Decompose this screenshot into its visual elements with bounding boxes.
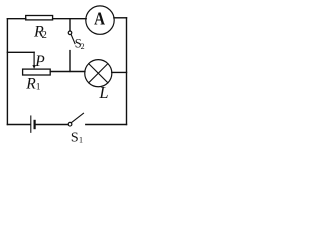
rheostat R1 box <box>23 69 51 75</box>
switch S2 lower wire <box>69 51 71 72</box>
wire ammeter to top right corner <box>114 17 127 19</box>
lamp L cross stroke 2 <box>89 64 108 83</box>
resistor R2 <box>26 16 53 20</box>
wiper P arrowhead <box>32 65 35 69</box>
wire top left segment <box>7 18 25 20</box>
wire battery to bottom left corner <box>7 124 30 126</box>
switch S2 contact circle <box>68 31 72 35</box>
wire R2 to ammeter <box>53 18 87 20</box>
switch S1 lever <box>72 113 84 122</box>
svg-text:A: A <box>94 8 105 28</box>
wire bottom right segment <box>86 124 127 126</box>
svg-text:2: 2 <box>42 30 47 41</box>
battery short plate <box>33 121 35 128</box>
wire lamp to right vertical <box>112 71 127 73</box>
lamp L cross stroke 1 <box>89 64 108 83</box>
wire right vertical <box>126 18 128 125</box>
svg-text:1: 1 <box>79 136 83 145</box>
switch S1 contact circle <box>68 122 72 126</box>
ammeter U A circle <box>86 6 114 34</box>
svg-text:S: S <box>71 131 79 146</box>
switch S2 upper wire <box>69 19 71 31</box>
wiper P arrow shaft <box>33 52 35 65</box>
svg-text:P: P <box>34 53 45 70</box>
switch S2 lever <box>71 34 75 43</box>
lamp L circle <box>85 60 112 87</box>
battery long plate <box>30 116 32 132</box>
wire S1 to battery <box>36 124 69 126</box>
svg-text:R: R <box>25 75 36 92</box>
wire wiper branch horizontal <box>7 51 34 53</box>
svg-text:1: 1 <box>36 82 41 92</box>
wire R1 to lamp <box>50 71 85 73</box>
svg-text:2: 2 <box>81 42 85 51</box>
wire left vertical <box>6 19 8 125</box>
svg-text:L: L <box>98 83 108 102</box>
